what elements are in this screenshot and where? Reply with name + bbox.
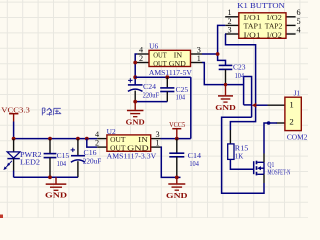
wire VCC3.3 stem	[13, 122, 15, 139]
resistor R15 1K	[228, 144, 249, 161]
ground (C23)	[215, 83, 236, 112]
svg-text:OUT: OUT	[110, 136, 126, 144]
ground (C14/U2)	[166, 177, 188, 200]
wire R15 to Q1 gate	[230, 159, 253, 169]
svg-text:OUT: OUT	[153, 52, 167, 60]
capacitor C25 104	[160, 77, 188, 102]
wire loop right of C23	[244, 77, 252, 118]
svg-text:1: 1	[197, 54, 201, 63]
svg-text:AMS1117-5V: AMS1117-5V	[149, 68, 193, 77]
wire Q1 source to left rail	[222, 117, 264, 193]
wire branch to C25 / VCC5 riser	[135, 76, 191, 78]
annotation text 降压	[42, 108, 61, 116]
wire J1 pin1 with arrow	[255, 104, 267, 106]
wire U2 pin3 to VCC5 / C14	[161, 138, 191, 140]
svg-text:104: 104	[189, 160, 199, 168]
svg-text:Q1: Q1	[267, 161, 274, 169]
svg-text:I/O2: I/O2	[267, 31, 282, 39]
svg-text:104: 104	[176, 94, 186, 102]
svg-text:J1: J1	[294, 89, 301, 97]
svg-text:220uF: 220uF	[83, 158, 102, 166]
svg-text:220uF: 220uF	[143, 92, 160, 100]
svg-text:TAP1: TAP1	[244, 23, 263, 31]
svg-text:C23: C23	[233, 64, 246, 72]
capacitor C23 104	[219, 64, 246, 85]
capacitor C16 220uF	[71, 139, 102, 177]
wire K1 pin3 to R15	[225, 34, 255, 130]
transistor Q1 MOSFET-N	[254, 161, 291, 177]
pushbutton K1 BUTTON	[225, 2, 300, 39]
svg-text:2: 2	[139, 54, 143, 63]
svg-text:GND: GND	[45, 192, 67, 200]
connector J1 COM2	[285, 89, 308, 141]
junction dots on VCC3.3 rail	[12, 137, 89, 141]
power port VCC5	[169, 121, 185, 139]
ground (LED/C15/C16)	[45, 177, 67, 199]
svg-text:TAP2: TAP2	[265, 23, 283, 31]
svg-text:COM2: COM2	[287, 133, 308, 141]
svg-text:LED2: LED2	[20, 159, 41, 167]
stray mark bottom-left	[0, 215, 3, 219]
ground (C24/C25)	[126, 102, 145, 127]
svg-text:GND: GND	[166, 192, 188, 200]
svg-text:4: 4	[296, 25, 300, 34]
wire bottom GND rail	[14, 176, 78, 178]
regulator U6 AMS1117-5V	[135, 43, 202, 77]
wire U6 pin1 to J1 area	[202, 63, 244, 85]
svg-text:OUT: OUT	[153, 60, 167, 68]
wire C24/C25 to GND	[135, 101, 167, 103]
svg-text:GND: GND	[126, 119, 145, 127]
svg-text:3: 3	[227, 25, 231, 34]
svg-text:GND: GND	[169, 60, 186, 68]
svg-text:C24: C24	[143, 83, 157, 91]
svg-text:104: 104	[235, 72, 245, 80]
capacitor C14 104	[169, 139, 201, 178]
svg-text:I/O1: I/O1	[244, 31, 262, 39]
capacitor C24 220uF	[128, 78, 159, 101]
svg-text:GND: GND	[215, 104, 236, 112]
svg-text:1: 1	[155, 139, 159, 148]
svg-text:I/O2: I/O2	[267, 14, 282, 22]
wire U6 pin4/pin2 to C24	[135, 54, 137, 85]
svg-text:MOSFET-N: MOSFET-N	[267, 170, 290, 177]
svg-text:U6: U6	[149, 43, 159, 51]
wire K1 pin2 to U6 pin3 and C23	[202, 25, 225, 54]
wire U2 pin1 to GND	[161, 147, 181, 177]
svg-text:I/O1: I/O1	[244, 14, 262, 22]
svg-text:C16: C16	[84, 149, 98, 157]
svg-text:U2: U2	[107, 128, 117, 136]
svg-text:IN: IN	[138, 136, 149, 144]
capacitor C15 104	[44, 139, 70, 177]
LED PWR2/LED2	[3, 139, 42, 177]
svg-text:104: 104	[57, 160, 67, 168]
svg-text:2: 2	[95, 139, 99, 148]
wire VCC3.3 rail	[14, 138, 98, 140]
svg-text:K1 BUTTON: K1 BUTTON	[237, 2, 284, 10]
svg-text:C14: C14	[188, 152, 202, 160]
regulator U2 AMS1117-3.3V	[95, 128, 161, 161]
svg-text:IN: IN	[174, 52, 184, 60]
wire rail to U2 pin2 branch	[87, 139, 97, 148]
svg-text:C15: C15	[57, 152, 70, 160]
svg-text:R15: R15	[235, 145, 249, 153]
svg-text:PWR2: PWR2	[20, 151, 42, 159]
power port VCC3.3	[1, 106, 30, 121]
svg-text:VCC5: VCC5	[169, 121, 185, 129]
wire J1 pin2 to Q1 drain	[276, 122, 285, 124]
svg-text:1: 1	[289, 99, 293, 109]
svg-text:1K: 1K	[235, 153, 244, 161]
svg-text:2: 2	[289, 117, 293, 127]
svg-text:AMS1117-3.3V: AMS1117-3.3V	[107, 152, 157, 161]
